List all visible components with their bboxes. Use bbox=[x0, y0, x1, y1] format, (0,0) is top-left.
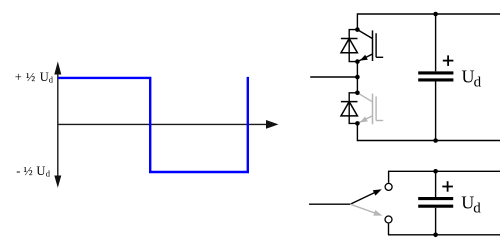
wire output bbox=[310, 76, 357, 78]
contact lower bbox=[385, 216, 392, 223]
svg-text:-½Ud: -½Ud bbox=[16, 164, 51, 179]
node output bbox=[355, 75, 360, 80]
wire leg middle bbox=[356, 62, 358, 93]
wire contact lower stub bbox=[388, 224, 390, 235]
transistor T2 (IGBT off, grey) bbox=[357, 93, 383, 124]
wire contact upper stub bbox=[388, 171, 390, 183]
switch arm off (grey arrow) bbox=[350, 204, 382, 215]
svg-text:Ud: Ud bbox=[461, 192, 481, 216]
node cap top bbox=[433, 12, 438, 17]
wire top rail bbox=[357, 13, 500, 15]
node cap2 top bbox=[433, 169, 438, 174]
plus sign C1 bbox=[443, 55, 454, 66]
wire leg upper bbox=[356, 13, 358, 29]
switch arm on (black arrow) bbox=[350, 189, 382, 204]
node cap bottom bbox=[433, 138, 438, 143]
wire leg lower bbox=[356, 123, 358, 141]
node collector top bbox=[355, 27, 360, 32]
diode D2 bbox=[341, 93, 358, 124]
capacitor C2 bbox=[418, 171, 453, 235]
node collector bottom bbox=[355, 91, 360, 96]
wire bottom rail bbox=[357, 140, 500, 142]
horizontal axis bbox=[58, 120, 279, 129]
contact upper bbox=[385, 183, 392, 190]
vertical axis bbox=[54, 61, 61, 187]
svg-text:Ud: Ud bbox=[462, 66, 482, 90]
waveform square wave bbox=[58, 77, 248, 172]
wire switch input bbox=[309, 203, 350, 205]
wire bottom rail 2 bbox=[388, 234, 500, 236]
node cap2 bottom bbox=[433, 233, 438, 238]
svg-text:+½Ud: +½Ud bbox=[15, 70, 54, 85]
transistor T1 (IGBT on) bbox=[357, 30, 383, 62]
diode D1 bbox=[341, 30, 358, 62]
plus sign C2 bbox=[442, 181, 453, 192]
node emitter top bbox=[355, 59, 360, 64]
node emitter bottom bbox=[355, 121, 360, 126]
capacitor C1 bbox=[418, 14, 453, 141]
wire top rail 2 bbox=[388, 170, 500, 172]
